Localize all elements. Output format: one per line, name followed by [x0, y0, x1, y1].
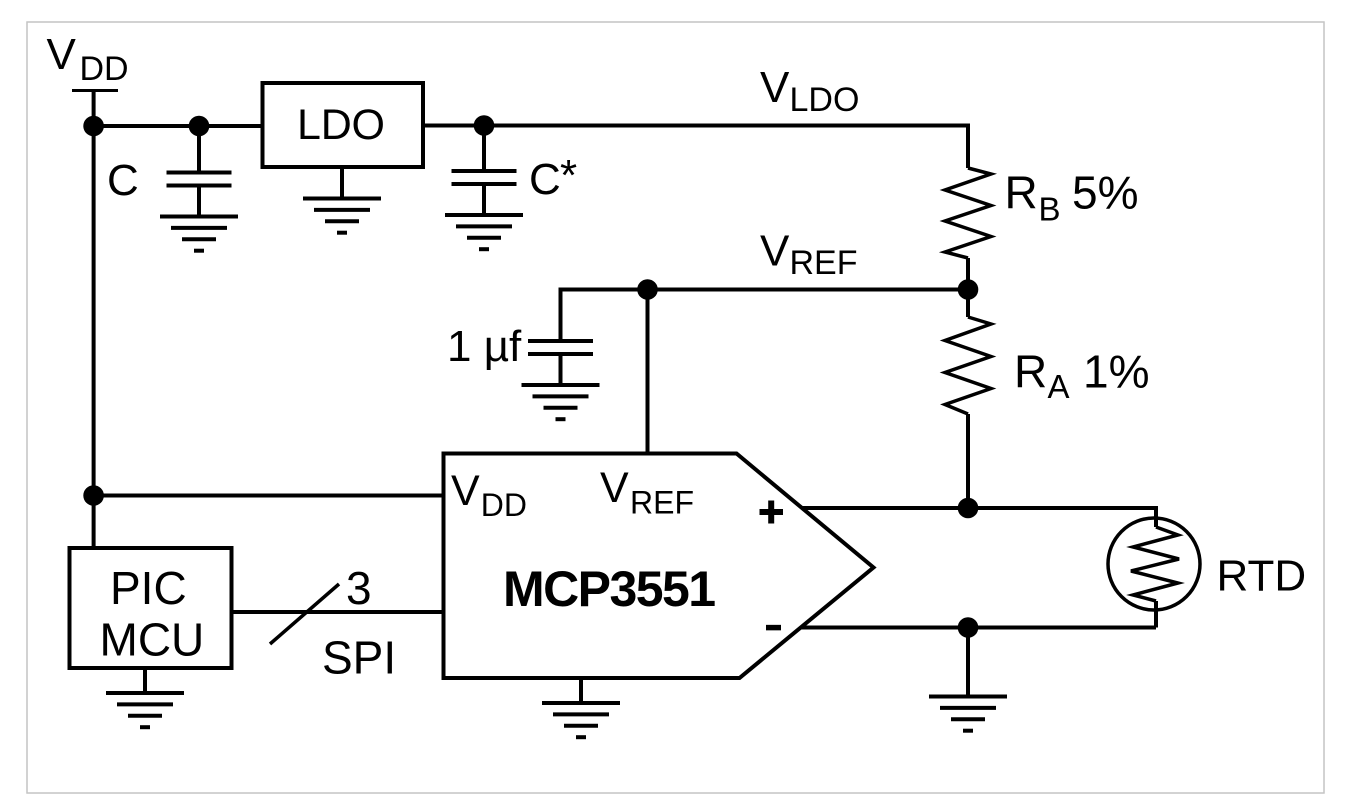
svg-text:RTD: RTD	[1217, 552, 1307, 601]
svg-text:V: V	[760, 63, 790, 112]
svg-text:V: V	[600, 464, 629, 512]
svg-text:LDO: LDO	[790, 81, 860, 119]
svg-text:A: A	[1048, 368, 1070, 405]
svg-text:DD: DD	[481, 487, 527, 523]
svg-text:SPI: SPI	[322, 632, 396, 684]
svg-text:*: *	[560, 151, 577, 200]
svg-text:MCU: MCU	[100, 614, 205, 666]
svg-text:R: R	[1014, 346, 1047, 398]
svg-text:R: R	[1005, 167, 1038, 219]
svg-text:B: B	[1039, 191, 1061, 228]
svg-text:LDO: LDO	[297, 101, 385, 149]
svg-text:C: C	[529, 155, 561, 204]
svg-text:DD: DD	[80, 50, 129, 88]
svg-text:5%: 5%	[1072, 167, 1138, 219]
svg-text:1 µf: 1 µf	[447, 322, 522, 371]
svg-text:V: V	[47, 30, 77, 79]
svg-text:V: V	[451, 467, 480, 515]
svg-text:MCP3551: MCP3551	[503, 561, 716, 617]
svg-text:C: C	[107, 156, 139, 205]
svg-text:V: V	[760, 227, 790, 276]
svg-text:REF: REF	[630, 485, 694, 521]
svg-text:1%: 1%	[1083, 346, 1149, 398]
svg-text:PIC: PIC	[110, 562, 187, 614]
svg-text:3: 3	[346, 562, 372, 614]
svg-text:REF: REF	[790, 244, 858, 282]
